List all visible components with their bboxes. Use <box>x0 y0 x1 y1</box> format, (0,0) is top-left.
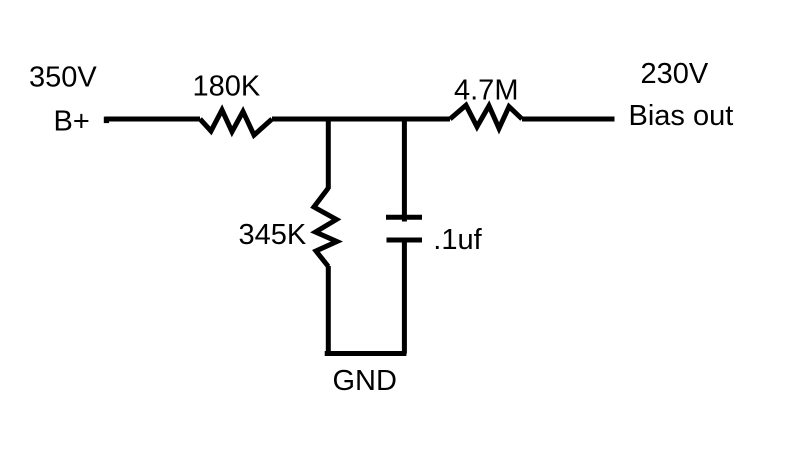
wire R2 to Bias out <box>522 117 615 122</box>
capacitor C1 bottom plate <box>387 238 423 243</box>
svg-text:230V: 230V <box>641 58 709 90</box>
resistor R2 4.7M <box>450 105 522 128</box>
wire C1 to GND rail <box>402 240 407 354</box>
wire node A down to R3 <box>326 117 331 189</box>
resistor R3 345K <box>314 188 337 267</box>
wire B+ to R1 <box>105 117 201 122</box>
wire R3 to GND rail <box>326 266 331 354</box>
wire R1 to node A <box>272 117 450 122</box>
capacitor C1 top plate <box>386 215 422 220</box>
ground rail wire <box>325 351 407 356</box>
svg-text:B+: B+ <box>54 106 90 138</box>
wire start tip blob at B+ <box>104 117 109 123</box>
svg-text:GND: GND <box>333 365 397 397</box>
svg-text:.1uf: .1uf <box>433 224 482 256</box>
svg-text:350V: 350V <box>29 62 97 94</box>
wire node A down to C1 <box>402 117 407 222</box>
svg-text:Bias out: Bias out <box>629 100 734 132</box>
svg-text:180K: 180K <box>193 71 261 103</box>
svg-text:4.7M: 4.7M <box>454 75 518 107</box>
resistor R1 180K <box>200 110 272 135</box>
svg-text:345K: 345K <box>239 219 307 251</box>
